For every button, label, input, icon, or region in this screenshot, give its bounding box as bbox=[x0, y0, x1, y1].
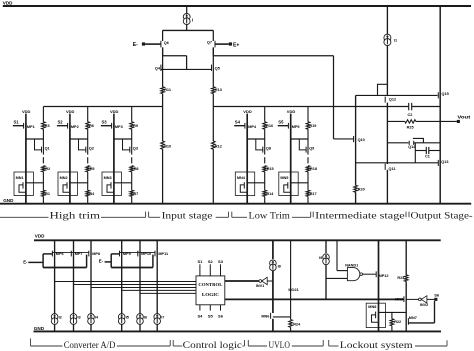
wire bbox=[378, 328, 380, 332]
wire bbox=[113, 196, 115, 204]
resistor R10 bbox=[161, 141, 171, 149]
svg-text:R24: R24 bbox=[293, 322, 301, 326]
wire bbox=[356, 162, 439, 164]
wire bbox=[307, 196, 309, 203]
transistor Q13 bbox=[438, 160, 448, 166]
wire bbox=[264, 157, 266, 163]
svg-text:MP3: MP3 bbox=[115, 125, 123, 129]
VDD rail (bottom circuit) bbox=[34, 239, 441, 241]
current source I1 bbox=[384, 34, 397, 45]
wire bbox=[387, 120, 404, 122]
wire bbox=[121, 325, 123, 332]
svg-text:R2: R2 bbox=[45, 167, 50, 171]
wire bbox=[247, 138, 265, 140]
svg-text:MN5: MN5 bbox=[280, 176, 288, 180]
svg-text:Q1: Q1 bbox=[45, 147, 50, 151]
svg-text:VDD: VDD bbox=[22, 109, 31, 114]
resistor R8 bbox=[130, 166, 139, 172]
input S4 bbox=[235, 120, 241, 125]
wire bbox=[291, 138, 308, 140]
wire bbox=[57, 125, 68, 127]
wire bbox=[213, 106, 408, 108]
wire bbox=[307, 157, 309, 163]
wire bbox=[42, 129, 44, 146]
svg-text:Lockout system: Lockout system bbox=[340, 340, 413, 350]
svg-text:R13: R13 bbox=[215, 88, 222, 92]
wire bbox=[52, 251, 88, 253]
svg-text:Q2: Q2 bbox=[89, 147, 94, 151]
ground rail (bottom circuit) bbox=[34, 330, 442, 332]
svg-text:VDD: VDD bbox=[287, 109, 296, 114]
transistor Q2 bbox=[86, 146, 94, 154]
current source I7 bbox=[154, 314, 164, 325]
wire bbox=[110, 254, 112, 268]
ground label GND bbox=[34, 326, 45, 331]
svg-text:INV1: INV1 bbox=[256, 284, 264, 288]
svg-text:I: I bbox=[192, 17, 193, 22]
transistor MN4 (boxed) bbox=[235, 172, 254, 196]
wire bbox=[387, 142, 408, 144]
wire bbox=[25, 123, 27, 139]
resistor R25 bbox=[405, 120, 416, 130]
wire bbox=[363, 273, 376, 275]
transistor Q3 bbox=[130, 146, 138, 154]
svg-text:Q8: Q8 bbox=[266, 147, 271, 151]
resistor R24 bbox=[289, 320, 301, 328]
svg-text:Input stage: Input stage bbox=[162, 211, 213, 221]
wire bbox=[156, 240, 158, 313]
wire bbox=[290, 196, 292, 204]
wire bbox=[434, 301, 436, 323]
svg-text:High trim: High trim bbox=[50, 211, 101, 221]
wire bbox=[162, 47, 164, 55]
svg-text:E-: E- bbox=[133, 42, 138, 48]
svg-text:Q15: Q15 bbox=[442, 92, 449, 96]
svg-text:R12: R12 bbox=[215, 145, 222, 149]
wire bbox=[28, 261, 43, 263]
pin S4 bbox=[197, 305, 203, 319]
transistor MN2 (boxed) bbox=[58, 172, 77, 196]
wire bbox=[87, 196, 89, 203]
wire bbox=[161, 68, 212, 70]
svg-text:S3: S3 bbox=[218, 259, 224, 264]
wire bbox=[326, 277, 347, 279]
svg-text:MP12: MP12 bbox=[379, 274, 389, 278]
wire bbox=[427, 298, 437, 300]
pin S1 bbox=[197, 259, 203, 276]
wire bbox=[120, 251, 156, 253]
wire bbox=[212, 47, 214, 55]
resistor R14 bbox=[263, 190, 274, 196]
wire bbox=[356, 94, 438, 96]
wire bbox=[69, 123, 71, 139]
wire bbox=[212, 149, 214, 204]
wire bbox=[225, 280, 259, 282]
ground label GND bbox=[3, 198, 14, 203]
transistor Q11 bbox=[385, 164, 395, 171]
input E- bbox=[133, 42, 145, 48]
wire bbox=[73, 325, 75, 332]
wire bbox=[336, 240, 338, 270]
section bracket bbox=[312, 212, 314, 218]
wire bbox=[325, 240, 327, 253]
resistor R12 bbox=[212, 141, 222, 149]
svg-text:MN2: MN2 bbox=[60, 176, 68, 180]
wire bbox=[439, 160, 441, 204]
section label Control logic bbox=[183, 340, 242, 350]
wire bbox=[42, 196, 44, 203]
wire bbox=[414, 142, 440, 144]
section bracket bbox=[415, 340, 447, 346]
wire bbox=[307, 172, 309, 191]
wire bbox=[114, 182, 132, 184]
transistor MP6 bbox=[52, 251, 63, 257]
VDD rail (top) bbox=[3, 5, 471, 7]
svg-text:VDD: VDD bbox=[110, 109, 119, 114]
wire bbox=[386, 170, 388, 204]
wire bbox=[73, 240, 75, 313]
transistor Q9 bbox=[306, 146, 314, 154]
wire bbox=[145, 43, 161, 45]
svg-text:Q12: Q12 bbox=[389, 98, 396, 102]
svg-text:S4: S4 bbox=[235, 120, 241, 125]
svg-text:I3: I3 bbox=[78, 316, 81, 320]
wire bbox=[379, 311, 407, 313]
node bbox=[387, 106, 389, 108]
wire bbox=[355, 192, 357, 204]
wire bbox=[54, 240, 56, 313]
input S1 bbox=[14, 120, 20, 125]
svg-text:S4: S4 bbox=[197, 314, 203, 319]
gate NAND1 bbox=[345, 263, 362, 280]
svg-text:VDD: VDD bbox=[3, 0, 13, 5]
current source I5 bbox=[118, 314, 128, 325]
svg-text:E+: E+ bbox=[233, 42, 239, 48]
wire bbox=[87, 107, 89, 122]
section bracket bbox=[173, 340, 182, 346]
resistor R4 bbox=[86, 190, 95, 196]
wire bbox=[91, 287, 196, 289]
wire bbox=[111, 267, 153, 269]
transistor Q15 bbox=[438, 92, 448, 98]
svg-text:Q9: Q9 bbox=[309, 147, 314, 151]
wire bbox=[334, 138, 354, 140]
wire bbox=[162, 30, 164, 41]
svg-text:Q13: Q13 bbox=[441, 160, 448, 164]
wire bbox=[105, 261, 112, 263]
input E+ bbox=[229, 42, 240, 48]
wire bbox=[139, 325, 141, 332]
wire bbox=[225, 298, 404, 300]
wire bbox=[69, 139, 71, 172]
svg-text:Q11: Q11 bbox=[389, 167, 396, 171]
node VDD stub (MP5) bbox=[287, 109, 296, 123]
svg-text:I8: I8 bbox=[278, 264, 281, 268]
svg-text:MN7: MN7 bbox=[409, 316, 417, 320]
resistor R9 bbox=[130, 122, 138, 129]
wire bbox=[87, 172, 89, 191]
svg-text:LOGIC: LOGIC bbox=[202, 292, 219, 297]
wire bbox=[405, 282, 407, 332]
section bracket bbox=[216, 212, 229, 218]
resistor R22 bbox=[390, 319, 401, 326]
svg-text:Q7: Q7 bbox=[207, 40, 212, 44]
wire bbox=[272, 319, 274, 332]
section label Input stage bbox=[162, 211, 213, 221]
wire bbox=[416, 120, 457, 122]
resistor R2 bbox=[42, 166, 51, 172]
svg-text:R18: R18 bbox=[310, 167, 317, 171]
current source I bbox=[183, 13, 193, 24]
input S2 bbox=[58, 120, 64, 125]
transistor Q7 bbox=[207, 40, 215, 47]
wire bbox=[131, 196, 133, 203]
section bracket bbox=[31, 339, 63, 347]
pin S3 bbox=[218, 259, 224, 276]
svg-text:R7: R7 bbox=[133, 192, 138, 196]
wire bbox=[162, 149, 164, 204]
transistor Q10 bbox=[354, 136, 365, 142]
wire bbox=[256, 139, 263, 150]
svg-text:E-: E- bbox=[23, 260, 28, 265]
transistor Q6 bbox=[161, 41, 169, 48]
wire bbox=[414, 143, 416, 163]
current source I2 bbox=[51, 314, 61, 325]
svg-text:VDD: VDD bbox=[66, 109, 75, 114]
svg-text:UVLO: UVLO bbox=[269, 340, 291, 350]
transistor MP10 bbox=[138, 251, 151, 257]
svg-text:MN6: MN6 bbox=[261, 314, 269, 318]
svg-text:R10: R10 bbox=[164, 145, 171, 149]
transistor Q5 bbox=[212, 65, 220, 71]
capacitor C2 bbox=[408, 103, 413, 117]
wire bbox=[163, 29, 214, 31]
wire bbox=[162, 94, 164, 141]
transistor MO21 bbox=[288, 288, 298, 292]
transistor MP1 bbox=[24, 123, 35, 129]
svg-text:Q4: Q4 bbox=[155, 66, 161, 70]
section bracket bbox=[292, 340, 323, 346]
svg-text:S2: S2 bbox=[208, 259, 214, 264]
svg-text:Intermediate stage: Intermediate stage bbox=[315, 211, 405, 221]
ground rail (top circuit) bbox=[0, 203, 471, 205]
node VDD stub (MP1) bbox=[22, 109, 31, 123]
section bracket bbox=[117, 340, 170, 346]
section bracket bbox=[232, 212, 247, 218]
svg-text:C2: C2 bbox=[408, 113, 413, 117]
wire bbox=[87, 157, 89, 163]
transistor MP2 bbox=[68, 123, 79, 129]
resistor R15 bbox=[263, 166, 274, 172]
wire bbox=[54, 325, 56, 332]
wire bbox=[405, 240, 407, 275]
svg-text:I9: I9 bbox=[319, 256, 322, 260]
wire bbox=[391, 326, 393, 332]
svg-text:MN3: MN3 bbox=[104, 176, 112, 180]
transistor Q1 bbox=[42, 146, 50, 154]
svg-text:S5: S5 bbox=[208, 314, 214, 319]
current source I3 bbox=[70, 314, 80, 325]
svg-text:Low Trim: Low Trim bbox=[249, 211, 290, 221]
transistor MN3 (boxed) bbox=[102, 172, 121, 196]
wire bbox=[42, 107, 44, 122]
svg-text:S6: S6 bbox=[218, 314, 224, 319]
wire bbox=[215, 43, 229, 45]
pin S6 bbox=[218, 305, 224, 319]
wire bbox=[35, 139, 42, 150]
svg-text:Q6: Q6 bbox=[164, 41, 169, 45]
wire bbox=[378, 240, 380, 303]
wire bbox=[90, 325, 92, 332]
wire bbox=[272, 271, 274, 313]
svg-text:S1: S1 bbox=[14, 120, 20, 125]
wire bbox=[386, 103, 388, 164]
wire bbox=[43, 267, 87, 269]
transistor MP5 bbox=[288, 123, 299, 129]
section label Converter A/D bbox=[64, 340, 116, 350]
resistor R18 bbox=[306, 166, 317, 172]
wire bbox=[290, 123, 292, 139]
section bracket bbox=[405, 212, 407, 218]
svg-text:Q3: Q3 bbox=[133, 147, 138, 151]
wire bbox=[139, 240, 141, 313]
svg-text:S3: S3 bbox=[102, 120, 108, 125]
svg-text:R22: R22 bbox=[394, 320, 401, 324]
transistor MP11 bbox=[155, 251, 168, 257]
transistor MP7 bbox=[71, 251, 82, 257]
wire bbox=[121, 240, 123, 313]
wire bbox=[152, 255, 154, 268]
inverter INV2 bbox=[419, 296, 429, 308]
wire bbox=[70, 182, 88, 184]
svg-text:GND: GND bbox=[3, 198, 14, 203]
section bracket bbox=[248, 340, 267, 346]
wire bbox=[131, 129, 133, 146]
svg-text:S5: S5 bbox=[278, 120, 284, 125]
section label High trim bbox=[50, 211, 101, 221]
wire bbox=[406, 298, 418, 300]
svg-text:R11: R11 bbox=[164, 88, 171, 92]
svg-text:VDD: VDD bbox=[35, 234, 45, 239]
resistor R19 bbox=[306, 122, 316, 129]
wire bbox=[55, 281, 196, 283]
wire bbox=[325, 265, 327, 300]
node S6 bbox=[434, 292, 440, 301]
svg-text:Control logic: Control logic bbox=[183, 340, 242, 350]
svg-text:MN4: MN4 bbox=[237, 176, 246, 180]
wire bbox=[25, 196, 27, 204]
wire bbox=[162, 47, 164, 86]
wire bbox=[43, 106, 163, 108]
wire bbox=[90, 240, 92, 313]
wire bbox=[264, 129, 266, 146]
wire bbox=[278, 125, 289, 127]
current source I6 bbox=[137, 314, 147, 325]
svg-text:MP8: MP8 bbox=[92, 252, 100, 256]
svg-text:R17: R17 bbox=[310, 192, 317, 196]
svg-text:Q5: Q5 bbox=[215, 66, 220, 70]
svg-text:CONTROL: CONTROL bbox=[198, 282, 222, 287]
wire bbox=[299, 139, 306, 150]
svg-text:R23: R23 bbox=[397, 276, 404, 280]
section label Intermediate stage bbox=[315, 211, 405, 221]
transistor MN9 bbox=[395, 296, 404, 302]
input E- bbox=[23, 260, 28, 265]
resistor R20 bbox=[354, 185, 365, 192]
block CONTROL LOGIC bbox=[196, 276, 225, 305]
svg-text:Output Stage-: Output Stage- bbox=[411, 211, 473, 221]
wire bbox=[26, 182, 44, 184]
svg-text:R15: R15 bbox=[267, 167, 274, 171]
wire bbox=[246, 123, 248, 139]
wire bbox=[156, 325, 158, 332]
power label VDD (bottom circuit) bbox=[35, 234, 45, 239]
svg-text:S1: S1 bbox=[197, 259, 203, 264]
wire bbox=[264, 196, 266, 203]
transistor MN8 (boxed) bbox=[366, 303, 385, 327]
resistor R13 bbox=[212, 87, 222, 94]
svg-text:R14: R14 bbox=[266, 192, 274, 196]
section bracket bbox=[0, 216, 49, 218]
transistor MP9 bbox=[120, 251, 131, 257]
wire bbox=[111, 253, 119, 255]
svg-text:R5: R5 bbox=[90, 167, 95, 171]
input E- bbox=[99, 259, 104, 264]
section label Low Trim bbox=[249, 211, 290, 221]
resistor R16 bbox=[263, 122, 273, 129]
node VDD stub (MP2) bbox=[66, 109, 75, 123]
wire bbox=[86, 255, 88, 268]
svg-text:S2: S2 bbox=[58, 120, 64, 125]
resistor R5 bbox=[86, 166, 95, 172]
wire bbox=[70, 138, 88, 140]
wire bbox=[272, 240, 274, 259]
wire bbox=[337, 270, 347, 272]
transistor MN1 (boxed) bbox=[14, 172, 33, 196]
svg-text:MP1: MP1 bbox=[27, 125, 35, 129]
svg-text:I7: I7 bbox=[161, 316, 164, 320]
wire bbox=[42, 254, 44, 268]
wire bbox=[264, 107, 266, 122]
wire bbox=[234, 125, 245, 127]
svg-text:C1: C1 bbox=[425, 155, 430, 159]
wire bbox=[307, 107, 309, 122]
svg-text:R6: R6 bbox=[89, 124, 94, 128]
svg-text:MN8: MN8 bbox=[368, 305, 376, 309]
wire bbox=[247, 182, 265, 184]
wire bbox=[87, 129, 89, 146]
section bracket bbox=[101, 212, 146, 218]
wire bbox=[267, 280, 273, 282]
section bracket bbox=[292, 212, 311, 218]
wire bbox=[355, 95, 357, 185]
wire bbox=[25, 139, 27, 172]
wire bbox=[131, 107, 133, 122]
svg-text:MN1: MN1 bbox=[16, 176, 24, 180]
section bracket bbox=[329, 340, 339, 346]
svg-text:I5: I5 bbox=[126, 316, 129, 320]
wire bbox=[69, 196, 71, 204]
wire bbox=[246, 196, 248, 204]
node VDD stub (MP4) bbox=[243, 109, 252, 123]
wire bbox=[212, 47, 214, 86]
svg-text:R8: R8 bbox=[134, 167, 139, 171]
wire bbox=[333, 56, 335, 139]
transistor Q12 bbox=[385, 97, 396, 103]
wire bbox=[439, 6, 441, 160]
svg-text:R16: R16 bbox=[266, 124, 273, 128]
power label VDD (top-left) bbox=[3, 0, 13, 5]
